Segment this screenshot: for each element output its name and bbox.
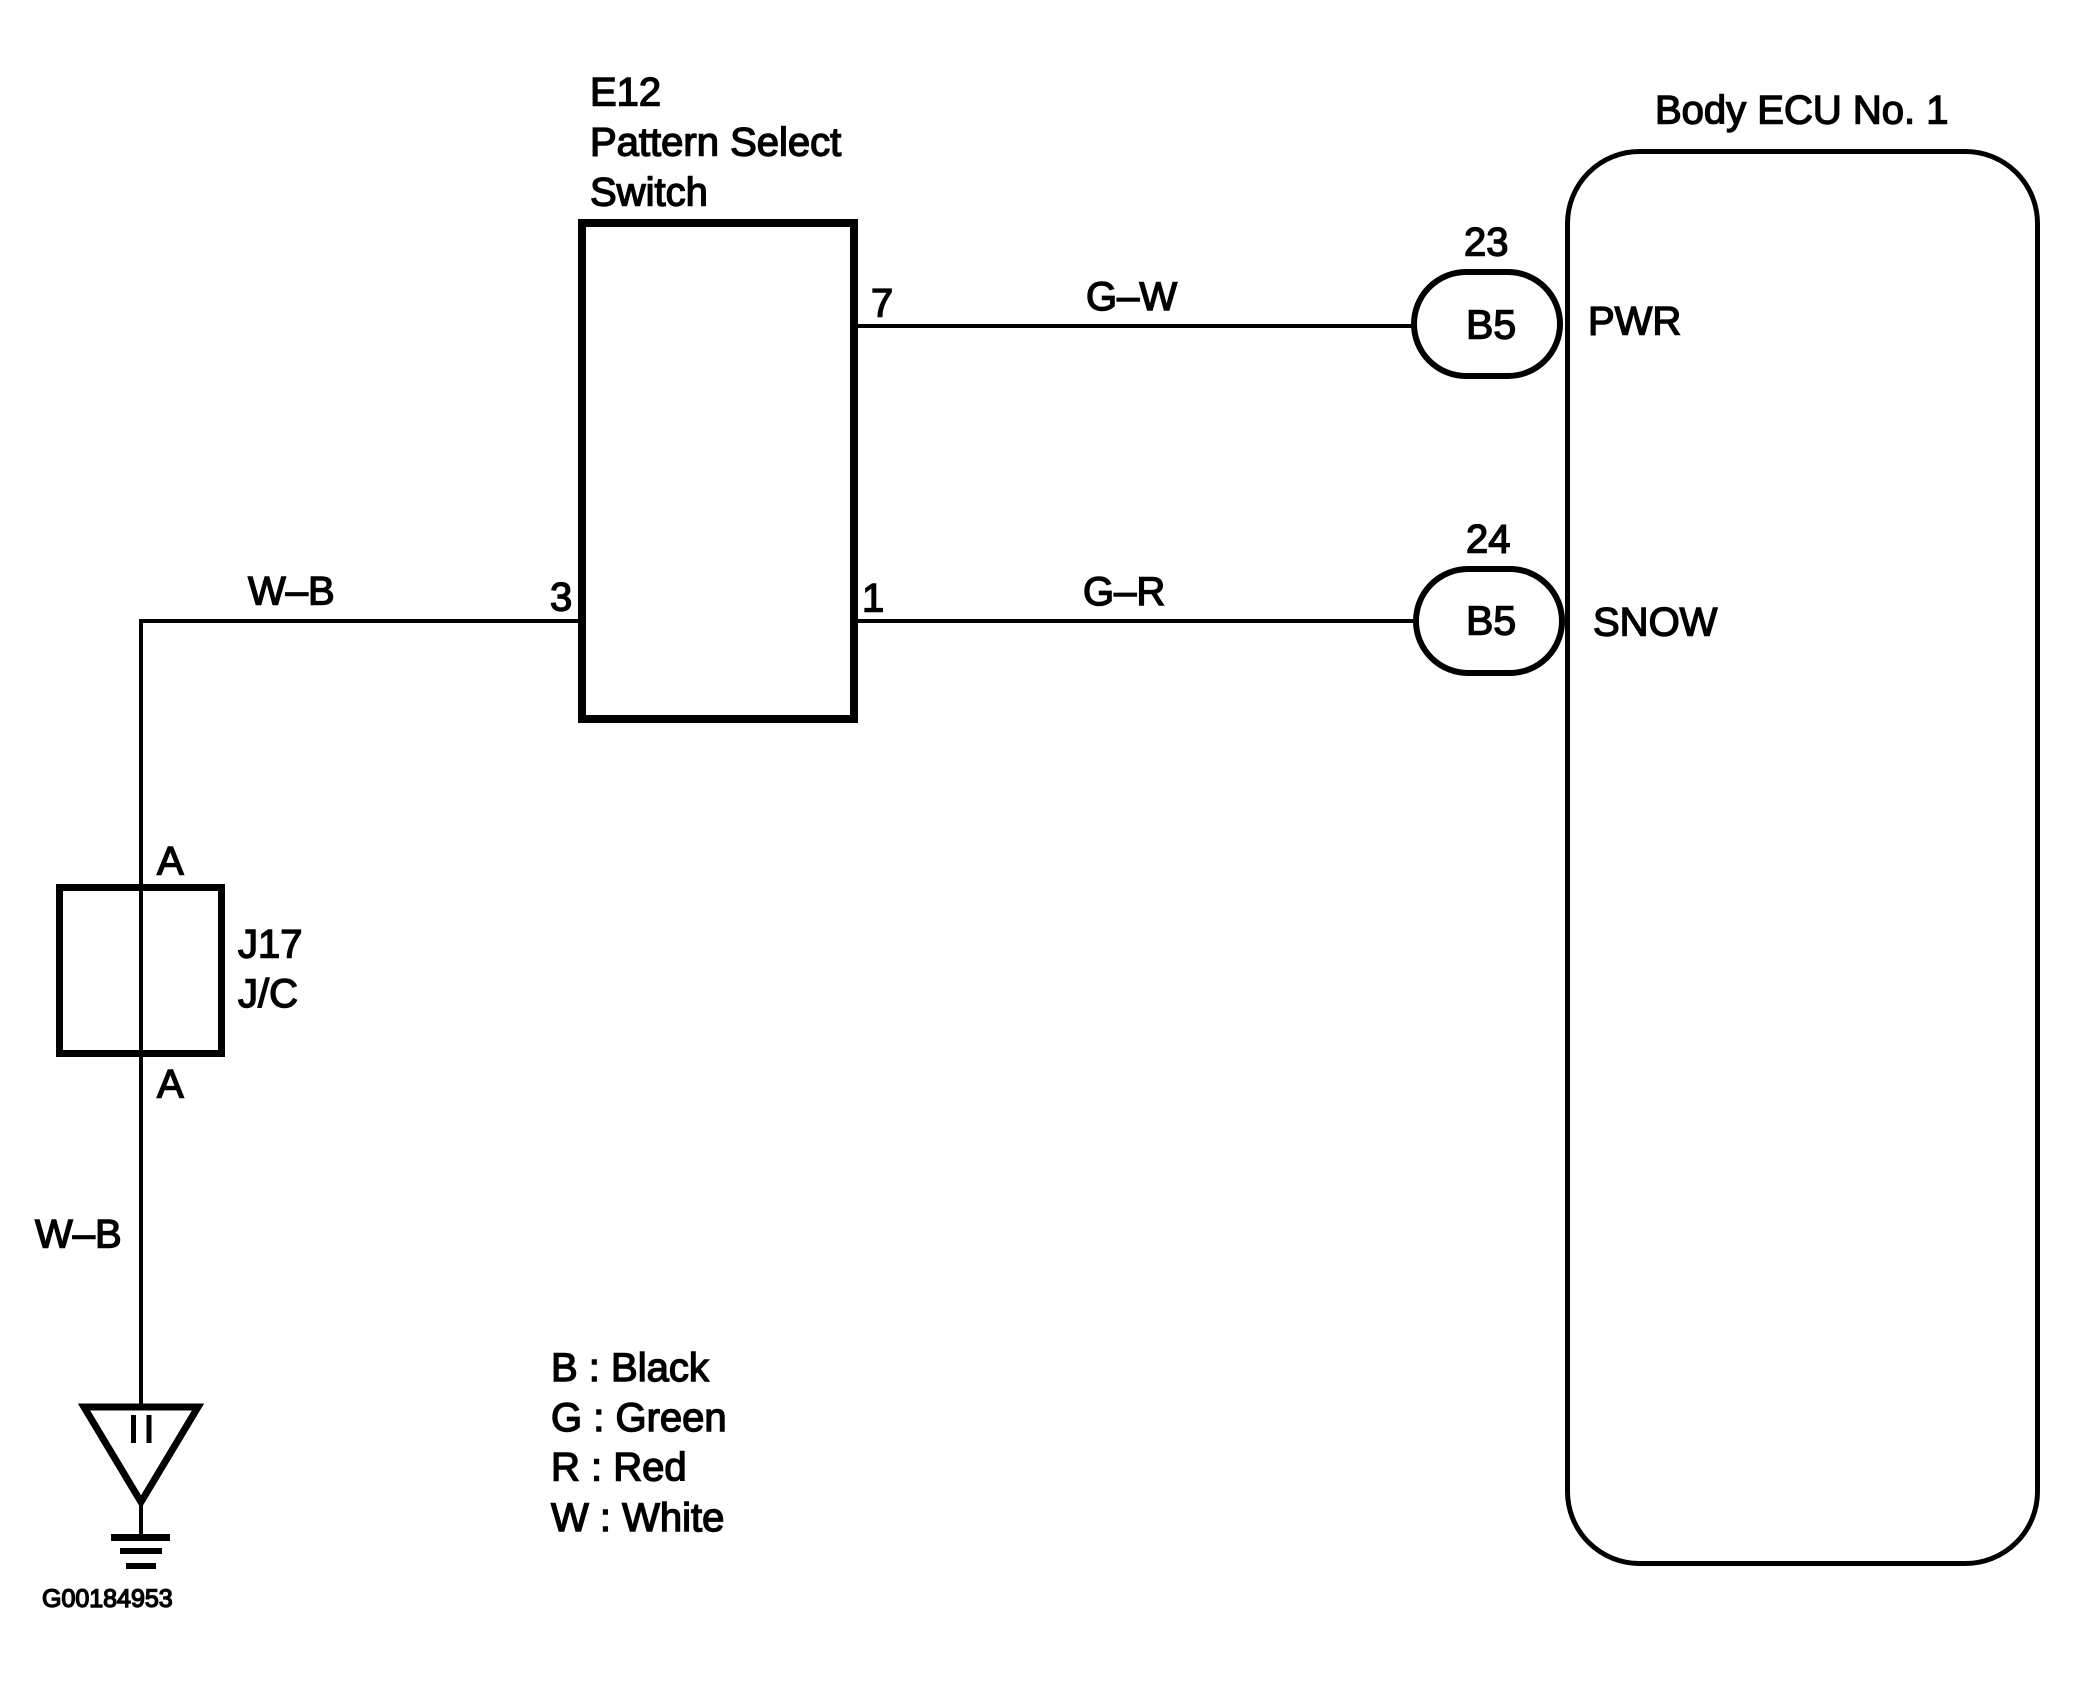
svg-text:SNOW: SNOW (1593, 601, 1718, 645)
switch E12 Pattern Select Switch box (582, 223, 854, 719)
pin A bottom (157, 1063, 184, 1107)
svg-text:7: 7 (871, 282, 893, 326)
svg-text:24: 24 (1466, 518, 1511, 562)
svg-text:R : Red: R : Red (551, 1446, 687, 1490)
wire value label G-W (1086, 275, 1177, 319)
pin 24 (1466, 518, 1511, 562)
wire value label G-R (1083, 570, 1165, 614)
svg-text:A: A (157, 840, 184, 884)
svg-text:B5: B5 (1466, 598, 1516, 644)
ground symbol bars (111, 1500, 170, 1566)
connector B5 pin 23 (1414, 272, 1560, 376)
pin 3 (550, 576, 572, 620)
wire value label W-B (248, 570, 335, 614)
label Body ECU No. 1 (1655, 89, 1948, 133)
connector B5 pin 24 (1416, 569, 1562, 673)
svg-text:E12: E12 (590, 71, 661, 115)
svg-text:1: 1 (862, 577, 884, 621)
svg-text:G–W: G–W (1086, 275, 1177, 319)
figure id G00184953 (42, 1585, 173, 1613)
legend wire color codes (551, 1346, 727, 1540)
svg-text:PWR: PWR (1588, 300, 1681, 344)
svg-text:J/C: J/C (238, 972, 298, 1016)
wire value label W-B lower (35, 1213, 122, 1257)
pin 7 (871, 282, 893, 326)
svg-text:B5: B5 (1466, 302, 1516, 348)
wire W-B from switch pin 3 (139, 619, 578, 623)
label PWR (1588, 300, 1681, 344)
svg-text:W–B: W–B (248, 570, 335, 614)
svg-text:3: 3 (550, 576, 572, 620)
svg-text:Switch: Switch (590, 171, 708, 215)
label J17 J/C (238, 923, 303, 1017)
label E12 Pattern Select Switch (590, 71, 841, 215)
svg-text:Body ECU No. 1: Body ECU No. 1 (1655, 89, 1948, 133)
svg-text:Pattern Select: Pattern Select (590, 121, 841, 165)
svg-text:W–B: W–B (35, 1213, 122, 1257)
svg-text:J17: J17 (238, 923, 303, 967)
wire G-R from switch pin 1 to connector B5-24 (858, 619, 1418, 623)
junction J17 J/C box (60, 888, 222, 1054)
label SNOW (1593, 601, 1718, 645)
svg-text:G–R: G–R (1083, 570, 1165, 614)
svg-text:W : White: W : White (551, 1496, 724, 1540)
ground triangle II (84, 1407, 198, 1502)
wire G-W from switch pin 7 to connector B5-23 (858, 324, 1416, 328)
wire vertical down to ground through J17 (139, 621, 143, 1404)
pin A top (157, 840, 184, 884)
svg-text:G : Green: G : Green (551, 1396, 727, 1440)
svg-text:B : Black: B : Black (551, 1346, 710, 1390)
pin 1 (862, 577, 884, 621)
svg-text:23: 23 (1464, 221, 1509, 265)
svg-text:G00184953: G00184953 (42, 1585, 173, 1613)
ECU Body ECU No. 1 box (1568, 152, 2038, 1564)
svg-text:A: A (157, 1063, 184, 1107)
pin 23 (1464, 221, 1509, 265)
